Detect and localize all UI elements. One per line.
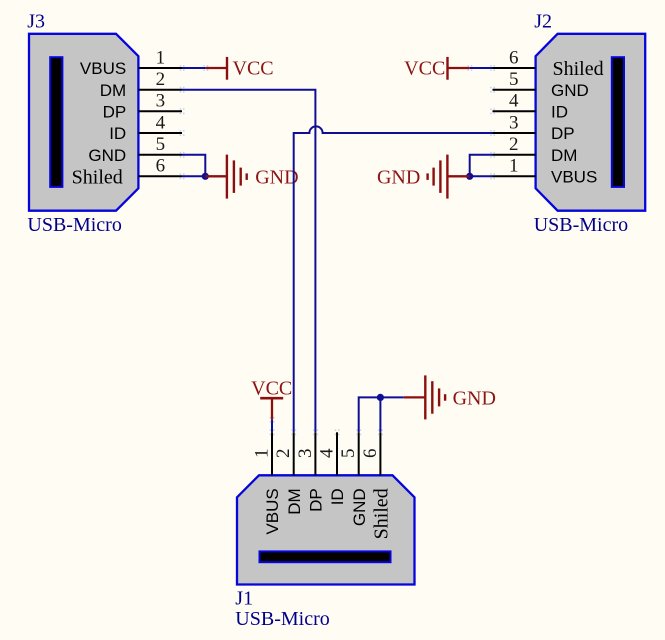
J2 pin 4 — [490, 91, 568, 122]
wire net DP: J2 pin3 to J1 pin2 (with hop) — [294, 126, 493, 432]
svg-text:DP: DP — [551, 124, 575, 143]
svg-text:Shiled: Shiled — [72, 167, 123, 189]
wire J2 pin1 to ground — [470, 175, 493, 177]
svg-text:J2: J2 — [534, 11, 552, 33]
wire J1 pin6 to ground — [380, 397, 403, 432]
svg-text:2: 2 — [509, 134, 519, 155]
wire net DM: J3 pin2 to J1 pin3 — [182, 90, 315, 433]
J3 pin 5 — [88, 134, 184, 165]
svg-text:DM: DM — [100, 81, 126, 100]
ground GND (J1) — [404, 375, 496, 419]
svg-text:J1: J1 — [235, 588, 253, 610]
svg-text:4: 4 — [509, 91, 519, 112]
svg-text:2: 2 — [156, 69, 166, 90]
svg-text:5: 5 — [338, 448, 359, 458]
J2 pin 3 — [490, 112, 574, 143]
power port VCC (J2) — [404, 57, 470, 80]
svg-text:Shiled: Shiled — [371, 488, 393, 539]
designator J2 — [534, 11, 552, 33]
J1 pin 5 — [338, 429, 369, 526]
svg-text:ID: ID — [551, 102, 568, 121]
svg-text:USB-Micro: USB-Micro — [534, 214, 628, 236]
svg-text:VBUS: VBUS — [263, 488, 282, 534]
wire J1 pin5 to ground junction — [359, 397, 381, 432]
svg-text:5: 5 — [509, 69, 519, 90]
svg-text:VCC: VCC — [404, 58, 445, 80]
J3 pin 1 — [80, 47, 185, 78]
power port VCC (J1) — [251, 377, 292, 420]
ground GND (J3) — [205, 155, 298, 199]
connector J2 body — [536, 34, 646, 211]
designator J3 — [27, 11, 45, 33]
svg-text:VCC: VCC — [251, 377, 292, 399]
svg-text:DP: DP — [103, 102, 127, 121]
wire J3 pin5 to ground junction — [182, 155, 205, 177]
svg-text:ID: ID — [109, 124, 126, 143]
svg-text:DM: DM — [285, 488, 304, 514]
designator J1 — [235, 588, 253, 610]
svg-text:1: 1 — [509, 156, 519, 177]
J3 pin 4 — [109, 112, 184, 143]
J1 pin 1 — [251, 429, 282, 534]
J2 pin 2 — [490, 134, 577, 165]
ground GND (J2) — [377, 155, 470, 199]
svg-text:GND: GND — [551, 81, 589, 100]
J3 receptacle slot bar — [50, 57, 62, 187]
svg-text:1: 1 — [251, 448, 272, 458]
svg-text:4: 4 — [316, 448, 337, 458]
J1 pin 2 — [273, 429, 304, 514]
svg-text:VBUS: VBUS — [80, 59, 126, 78]
J2 pin 5 — [490, 69, 589, 100]
comment USB-Micro (J1) — [235, 608, 329, 630]
svg-text:6: 6 — [156, 156, 166, 177]
wire J2 pin2 to ground junction — [470, 155, 493, 177]
svg-text:6: 6 — [509, 47, 519, 68]
svg-text:3: 3 — [295, 448, 316, 458]
svg-text:Shiled: Shiled — [553, 58, 604, 80]
wire J2 pin6 to VCC — [467, 65, 492, 71]
svg-text:GND: GND — [88, 146, 126, 165]
J3 pin 6 — [72, 156, 185, 189]
wire J1 pin1 to VCC — [270, 417, 275, 432]
svg-text:5: 5 — [156, 134, 166, 155]
svg-text:DM: DM — [551, 146, 577, 165]
svg-text:ID: ID — [328, 488, 347, 505]
J2 receptacle slot bar — [612, 57, 624, 187]
svg-text:USB-Micro: USB-Micro — [235, 608, 329, 630]
svg-text:GND: GND — [377, 167, 420, 189]
comment USB-Micro (J3) — [27, 214, 121, 236]
comment USB-Micro (J2) — [534, 214, 628, 236]
svg-text:GND: GND — [350, 488, 369, 526]
wire J3 pin6 to ground — [182, 175, 205, 177]
junction at J1 ground — [377, 394, 384, 401]
svg-text:GND: GND — [255, 167, 298, 189]
svg-text:2: 2 — [273, 448, 294, 458]
junction at J2 ground — [466, 173, 473, 180]
J2 pin 1 — [490, 156, 597, 187]
svg-text:4: 4 — [156, 112, 166, 133]
power port VCC (J3) — [206, 57, 274, 80]
connector J3 body — [29, 34, 138, 211]
J1 pin 4 — [316, 429, 347, 505]
J1 pin 3 — [295, 429, 326, 512]
connector J1 body — [237, 475, 415, 584]
svg-text:6: 6 — [360, 448, 381, 458]
svg-text:1: 1 — [156, 47, 166, 68]
svg-text:DP: DP — [307, 488, 326, 512]
wire J3 pin1 to VCC — [182, 65, 208, 71]
svg-text:VCC: VCC — [233, 58, 274, 80]
svg-text:GND: GND — [453, 387, 496, 409]
svg-text:3: 3 — [509, 112, 519, 133]
J2 pin 6 — [490, 47, 603, 80]
J1 pin 6 — [360, 429, 393, 539]
svg-text:3: 3 — [156, 91, 166, 112]
svg-text:VBUS: VBUS — [551, 167, 597, 186]
svg-text:USB-Micro: USB-Micro — [27, 214, 121, 236]
J3 pin 3 — [103, 91, 185, 122]
junction at J3 ground — [202, 173, 209, 180]
svg-text:J3: J3 — [27, 11, 45, 33]
J1 receptacle slot bar — [260, 551, 391, 562]
J3 pin 2 — [100, 69, 185, 100]
